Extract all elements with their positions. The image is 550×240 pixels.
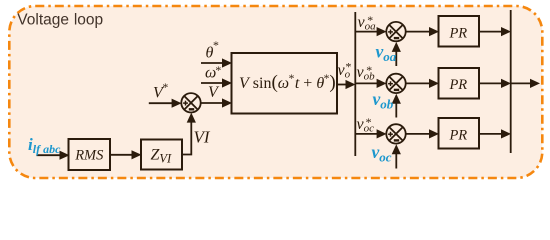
wire V* into S1 (149, 102, 173, 104)
wire PR1 to collection bus (479, 31, 502, 33)
svg-text:PR: PR (448, 25, 467, 41)
wire collection bus (510, 10, 512, 153)
wire PR2 to collection bus (479, 82, 502, 84)
block ZVI (141, 140, 182, 170)
wire bus to Sb (355, 82, 377, 84)
summing junction S1 (181, 93, 200, 112)
summing junction Sa (386, 22, 405, 41)
block PR3 (439, 118, 480, 149)
wire distribution bus (354, 12, 356, 156)
svg-text:V sin(ω*t + θ*): V sin(ω*t + θ*) (239, 72, 336, 93)
wire PR3 to collection bus (479, 133, 502, 135)
wire Sb to PR2 (406, 82, 430, 84)
wire final output (511, 82, 531, 84)
wire S1 to sin block (201, 102, 223, 104)
svg-text:PR: PR (448, 77, 467, 93)
svg-text:vo*: vo* (338, 60, 351, 81)
summing junction Sc (386, 124, 405, 143)
svg-text:VI: VI (194, 128, 211, 147)
wire feedback vob (395, 103, 397, 118)
voltage loop dashed boundary (9, 6, 542, 178)
wire sin block output to distribution node (337, 84, 347, 86)
svg-text:Voltage loop: Voltage loop (17, 11, 103, 28)
block RMS (69, 139, 111, 170)
svg-text:PR: PR (448, 128, 467, 144)
wire RMS to ZVI (110, 154, 133, 156)
block V sin (232, 53, 338, 114)
wire i_lf input to RMS (37, 154, 61, 156)
wire bus to Sc (355, 133, 377, 135)
block PR1 (439, 16, 480, 47)
wire feedback voc (395, 153, 397, 168)
wire Sa to PR1 (406, 31, 430, 33)
block PR2 (439, 68, 480, 99)
summing junction Sb (386, 74, 405, 93)
wire bus to Sa (355, 31, 377, 33)
wire Sc to PR3 (406, 133, 430, 135)
wire ZVI up to S1 (182, 121, 191, 155)
wire feedback voa (395, 51, 397, 66)
wire omega* input (201, 82, 223, 84)
svg-text:RMS: RMS (74, 148, 104, 164)
wire theta* input (201, 62, 223, 64)
